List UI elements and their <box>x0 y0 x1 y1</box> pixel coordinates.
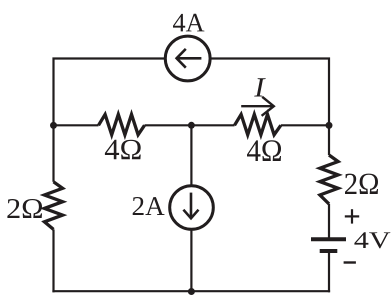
label battery plus sign <box>345 209 359 223</box>
label 4ohm right value <box>247 140 281 161</box>
resistor 2ohm left (vertical zigzag) <box>44 182 62 230</box>
wire: left branch (node A down to 2ohm resistor) <box>52 125 54 182</box>
node A junction dot (left, middle wire) <box>50 122 57 129</box>
resistor 2ohm right (vertical zigzag) <box>320 155 338 204</box>
wire: right branch middle (right 2ohm resistor to battery top plate) <box>328 204 330 238</box>
label 2ohm right value <box>345 174 378 194</box>
current source 2A (circle) <box>170 186 214 230</box>
wire: middle branch upper (node B down to 2A source) <box>190 125 192 185</box>
label 2A value <box>133 197 165 215</box>
wire: middle branch lower (2A source to bottom node D) <box>190 230 192 292</box>
wire: top-right (4A source right terminal to right node) <box>211 59 329 127</box>
current arrow I over right 4ohm resistor <box>241 97 274 116</box>
label battery minus sign <box>344 261 356 263</box>
label I (current) <box>254 78 266 96</box>
wire: right branch lower (battery bottom plate to bottom wire) <box>328 253 330 293</box>
wire: bottom (bottom-left corner to bottom-right corner) <box>52 290 330 292</box>
label 2ohm left value <box>7 199 42 218</box>
wire: middle-right (right 4ohm to node C) <box>281 124 329 126</box>
battery 4V bottom plate (short, negative) <box>320 249 338 253</box>
label 4ohm left value <box>105 140 141 160</box>
label 4A value <box>173 14 204 32</box>
node D junction dot (bottom wire center) <box>188 288 195 295</box>
wire: middle-center (left 4ohm to right 4ohm through node B) <box>145 124 235 126</box>
wire: middle-left (node A to 4ohm resistor) <box>54 124 99 126</box>
wire: top-left (left node up to 4A source left terminal) <box>54 59 165 127</box>
current source 4A arrow (pointing left) <box>177 49 202 68</box>
current source 4A (circle) <box>165 36 210 81</box>
resistor 4ohm right (horizontal zigzag) <box>235 114 281 134</box>
wire: left branch lower (2ohm resistor to bottom wire) <box>52 229 54 292</box>
label 4V value <box>354 232 390 248</box>
resistor 4ohm left (horizontal zigzag) <box>99 114 145 134</box>
battery 4V top plate (long, positive) <box>311 237 346 241</box>
node B junction dot (middle wire center) <box>188 122 195 129</box>
wire: right branch upper (node C down to right 2ohm resistor) <box>328 125 330 155</box>
node C junction dot (right, middle wire) <box>326 122 333 129</box>
current source 2A arrow (pointing down) <box>183 193 198 219</box>
